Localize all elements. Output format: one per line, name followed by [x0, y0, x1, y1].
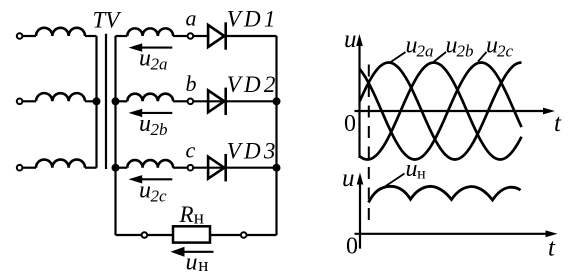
junction dot cathode bus row3	[273, 164, 281, 172]
node b terminal circle	[188, 99, 194, 105]
svg-text:TV: TV	[93, 8, 123, 33]
wire diode VD2 cathode to right bus	[227, 100, 277, 102]
secondary bus wire down to load rail	[114, 36, 116, 235]
primary winding 1 of TV	[36, 28, 85, 36]
wire secondary coil to node a	[173, 35, 188, 37]
left bus wire (primary star point)	[95, 36, 97, 168]
junction dot cathode bus row2	[273, 97, 281, 105]
node a terminal circle	[188, 33, 194, 39]
svg-text:н: н	[198, 255, 208, 276]
svg-text:VD3: VD3	[227, 139, 279, 164]
voltage arrow un under resistor	[183, 251, 214, 253]
wire diode VD1 cathode to right bus	[227, 35, 277, 37]
junction dot secondary bus row2	[112, 97, 120, 105]
secondary winding 1 of TV	[127, 28, 173, 36]
wire node c to diode VD3 anode	[194, 167, 225, 169]
svg-text:2a: 2a	[417, 42, 434, 61]
wire secondary bus to coil 2	[116, 100, 128, 102]
bottom graph horizontal axis t	[355, 233, 547, 235]
svg-text:u: u	[186, 250, 198, 276]
svg-text:н: н	[417, 166, 426, 183]
svg-text:u: u	[342, 165, 355, 192]
svg-text:2b: 2b	[151, 120, 168, 139]
svg-text:b: b	[186, 71, 197, 96]
voltage arrow u2b	[141, 112, 172, 114]
load terminal circle left	[142, 232, 148, 238]
diode VD3 triangle	[208, 157, 224, 179]
diode VD2 triangle	[208, 90, 224, 112]
voltage arrow u2a	[141, 47, 172, 49]
svg-text:2c: 2c	[151, 187, 168, 206]
leader line u2c	[478, 52, 487, 62]
svg-text:0: 0	[346, 233, 358, 259]
wire primary coil to left bus 1	[85, 35, 97, 37]
svg-text:R: R	[179, 202, 194, 227]
svg-text:2c: 2c	[497, 42, 514, 61]
sine curve u2c	[360, 63, 522, 160]
junction dot left bus row2	[93, 97, 101, 105]
sine curve u2a	[360, 63, 522, 160]
wire secondary coil to node b	[173, 100, 188, 102]
cathode bus wire (right side)	[275, 36, 277, 235]
wire terminal to primary coil 2	[23, 100, 36, 102]
wire terminal to primary coil 3	[23, 167, 36, 169]
secondary winding 2 of TV	[127, 94, 173, 102]
svg-text:u: u	[344, 26, 357, 53]
top graph horizontal axis t	[355, 110, 545, 112]
svg-text:2b: 2b	[457, 42, 474, 61]
top graph vertical axis	[358, 44, 360, 158]
sine curve u2b	[360, 63, 522, 160]
wire primary coil to left bus 3	[85, 167, 97, 169]
svg-text:c: c	[186, 138, 196, 163]
wire terminal to primary coil 1	[23, 35, 36, 37]
wire secondary coil to node c	[173, 167, 188, 169]
wire node b to diode VD2 anode	[194, 100, 225, 102]
wire secondary bus to coil 3	[116, 167, 128, 169]
wire primary coil to left bus 2	[85, 100, 97, 102]
junction dot secondary bus row3	[112, 164, 120, 172]
leader line u2a	[390, 52, 406, 63]
primary terminal 1	[17, 33, 23, 39]
rectified output curve un	[369, 186, 521, 202]
svg-text:t: t	[548, 235, 556, 262]
svg-text:0: 0	[344, 111, 356, 137]
svg-text:н: н	[194, 208, 204, 229]
svg-text:u: u	[139, 46, 151, 72]
leader line un	[385, 174, 405, 187]
load terminal circle right	[241, 232, 247, 238]
diode VD3 cathode bar	[224, 154, 227, 181]
svg-text:VD1: VD1	[227, 7, 279, 32]
primary terminal 2	[17, 99, 23, 105]
bottom graph vertical axis	[359, 182, 361, 249]
secondary winding 3 of TV	[127, 160, 173, 168]
resistor Rn body	[173, 226, 210, 242]
diode VD2 cathode bar	[224, 88, 227, 115]
node c terminal circle	[188, 165, 194, 171]
diode VD1 cathode bar	[224, 22, 227, 49]
wire secondary bus to coil 1	[116, 35, 128, 37]
wire node a to diode VD1 anode	[194, 35, 210, 37]
primary terminal 3	[17, 165, 23, 171]
svg-text:u: u	[139, 111, 151, 137]
primary winding 2 of TV	[36, 93, 85, 101]
svg-text:VD2: VD2	[227, 72, 279, 97]
primary winding 3 of TV	[36, 160, 85, 168]
dashed commutation line	[368, 65, 370, 227]
svg-text:a: a	[186, 6, 197, 31]
load rail wire	[116, 234, 277, 236]
svg-text:u: u	[406, 156, 418, 182]
transformer core line	[105, 34, 107, 169]
wire diode VD3 cathode to right bus	[227, 167, 277, 169]
diode VD1 triangle	[208, 25, 224, 47]
svg-text:t: t	[554, 110, 562, 137]
leader line u2b	[434, 52, 446, 62]
voltage arrow u2c	[141, 178, 172, 180]
svg-text:2a: 2a	[151, 55, 168, 74]
svg-text:u: u	[139, 178, 151, 204]
